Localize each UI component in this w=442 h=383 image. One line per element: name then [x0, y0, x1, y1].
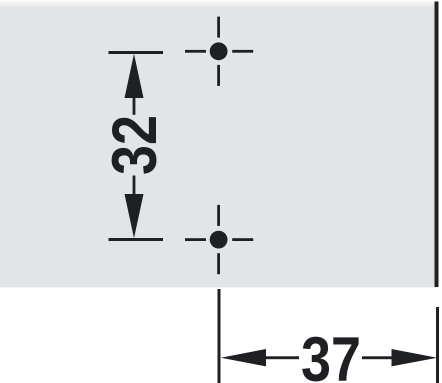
dimension 32: lower arrowhead: [125, 194, 144, 238]
mounting plate surface: [0, 0, 437, 288]
plate right edge line: [435, 2, 439, 288]
dimension 37: left arrowhead: [221, 349, 266, 366]
svg-text:32: 32: [100, 115, 170, 175]
dimension 32: upper arrowhead: [125, 54, 144, 98]
dimension 37: left shaft: [264, 356, 299, 359]
crosshair H2 right dash: [232, 238, 253, 241]
crosshair H2 top dash: [217, 205, 220, 226]
dimension 37: right shaft: [362, 356, 393, 359]
svg-text:37: 37: [301, 325, 361, 383]
dimension 37: right arrowhead: [392, 349, 438, 366]
dimension 37: right extension line: [436, 307, 439, 383]
hole H2 (bottom): [210, 231, 228, 249]
dimension 37: left extension line: [218, 289, 221, 383]
crosshair H1 bottom dash: [217, 65, 220, 86]
crosshair H2 bottom dash: [217, 253, 220, 274]
crosshair H1 right dash: [232, 50, 253, 53]
dimension 32: lower shaft: [133, 176, 136, 195]
dimension 32: top tick: [109, 51, 164, 54]
dimension 32: upper shaft: [133, 96, 136, 115]
dimension 32: bottom tick: [109, 238, 164, 241]
hole H1 (top): [210, 42, 228, 60]
crosshair H1 left dash: [185, 50, 206, 53]
crosshair H2 left dash: [185, 238, 206, 241]
crosshair H1 top dash: [217, 17, 220, 38]
